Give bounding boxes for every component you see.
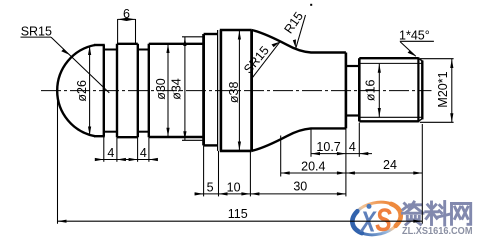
svg-text:ø38: ø38 — [227, 81, 241, 103]
chamfer start wall — [417, 57, 419, 122]
svg-text:SR15: SR15 — [21, 24, 52, 38]
M20 extension top — [420, 58, 454, 60]
ring left wall — [116, 44, 118, 137]
groove 2 floor top — [138, 49, 149, 51]
dimension d16 line — [378, 64, 380, 117]
svg-text:ø30: ø30 — [154, 78, 168, 100]
dimension d26 line — [89, 46, 91, 136]
shaft profile: d30 bottom line — [149, 136, 204, 138]
M20 extension bottom — [420, 121, 454, 123]
dim 6 line — [118, 18, 136, 20]
flange double line thin — [217, 30, 219, 151]
shaft end face — [421, 61, 423, 120]
shaft profile: sphere SR15 left cap — [57, 45, 95, 136]
shaft profile: d30 top line — [149, 43, 204, 45]
d34 top thin line — [182, 36, 204, 38]
svg-text:4: 4 — [349, 140, 356, 154]
ring bottom line — [117, 136, 138, 138]
thread minor top thin line — [359, 62, 422, 64]
S-curve bottom SR15-R15 — [252, 128, 346, 151]
thread minor bottom thin line — [359, 116, 422, 118]
ring top line — [117, 43, 138, 45]
svg-text:115: 115 — [228, 207, 248, 221]
svg-text:6: 6 — [123, 7, 130, 21]
watermark chinese char 资 — [403, 202, 424, 225]
svg-text:30: 30 — [293, 180, 307, 194]
flange d38 bottom line — [220, 150, 252, 153]
S-curve top SR15-R15 — [252, 30, 346, 53]
chamfer corner top — [418, 58, 422, 61]
dim 5-10-30 extension lines — [203, 145, 205, 196]
groove 1 left wall — [103, 45, 105, 136]
chamfer corner bottom — [418, 119, 422, 122]
thread major top line — [359, 57, 418, 59]
shaft profile: d26 bottom line — [94, 135, 105, 137]
groove 2 left wall — [137, 44, 139, 137]
dimension d34 line — [184, 37, 186, 140]
groove 1 floor top — [104, 49, 117, 51]
disc bottom line — [204, 144, 218, 146]
flange right wall — [250, 30, 253, 151]
svg-text:ZL.XS1616.COM: ZL.XS1616.COM — [402, 226, 473, 237]
svg-text:ø16: ø16 — [364, 79, 378, 101]
svg-text:24: 24 — [383, 158, 397, 172]
svg-text:10: 10 — [227, 180, 241, 194]
dimension d30 line — [167, 44, 169, 137]
svg-text:M20*1: M20*1 — [436, 71, 450, 107]
relief groove floor top — [346, 65, 359, 67]
svg-text:1*45°: 1*45° — [399, 29, 430, 43]
groove 1 floor bottom — [104, 131, 117, 133]
thread major bottom line — [359, 120, 418, 122]
svg-text:5: 5 — [207, 180, 214, 194]
stray dot speck — [310, 4, 312, 6]
dim 10.7 and 4 extension lines — [310, 129, 312, 157]
step wall at x203.6 — [202, 34, 205, 145]
flange double line thick — [220, 30, 223, 151]
flange d38 top line — [220, 29, 252, 32]
svg-text:4: 4 — [107, 146, 114, 160]
watermark chinese char 料 — [426, 202, 450, 226]
svg-text:20.4: 20.4 — [301, 160, 325, 174]
disc top line — [204, 33, 218, 35]
svg-text:10.7: 10.7 — [316, 140, 340, 154]
dim 4-4 line — [96, 159, 158, 161]
dim 20.4-24 line — [281, 172, 423, 174]
dim 10.7-4 line — [311, 153, 372, 155]
groove 2 right wall — [148, 44, 150, 137]
d34 bottom thin line — [182, 139, 204, 141]
dim 6 extension lines — [117, 19, 119, 43]
svg-text:4: 4 — [140, 146, 147, 160]
dim 20.4 and 24 extension lines — [280, 136, 282, 177]
dimension d38 line — [238, 31, 240, 151]
watermark logo ellipse ring — [349, 198, 403, 239]
watermark dot above X — [367, 204, 372, 209]
watermark chinese char 网 — [452, 204, 471, 225]
svg-text:ø34: ø34 — [170, 78, 184, 100]
relief groove floor bottom — [346, 114, 359, 116]
dim 115 line — [58, 220, 423, 222]
shaft profile: d26 top line — [94, 44, 105, 46]
relief groove right wall — [358, 58, 361, 121]
dim 115 extension left — [57, 91, 59, 224]
dim 5-10-30 line — [195, 193, 346, 195]
groove 2 floor bottom — [138, 131, 149, 133]
dimension M20 line — [451, 59, 453, 122]
dim 4-4 extension lines — [103, 136, 105, 162]
relief groove left wall — [345, 53, 348, 129]
svg-text:ø26: ø26 — [75, 80, 89, 102]
centerline — [41, 90, 432, 92]
